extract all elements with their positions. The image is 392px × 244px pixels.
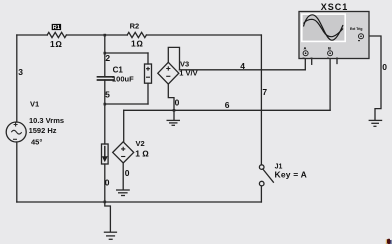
svg-text:XSC1: XSC1 <box>321 2 349 12</box>
svg-text:C1: C1 <box>113 66 124 75</box>
svg-text:Ext Trig: Ext Trig <box>350 27 362 31</box>
svg-text:R2: R2 <box>130 21 140 30</box>
svg-text:Key = A: Key = A <box>275 169 308 179</box>
svg-text:0: 0 <box>105 177 110 187</box>
svg-text:10.3 Vrms: 10.3 Vrms <box>29 116 64 125</box>
svg-text:1 Ω: 1 Ω <box>135 149 149 159</box>
svg-text:V1: V1 <box>30 100 39 109</box>
svg-text:6: 6 <box>225 100 230 110</box>
svg-text:0: 0 <box>125 168 130 178</box>
svg-text:4: 4 <box>240 61 245 71</box>
svg-text:5: 5 <box>105 89 110 99</box>
svg-text:1Ω: 1Ω <box>131 39 143 49</box>
svg-text:1 V/V: 1 V/V <box>179 69 197 78</box>
svg-text:V2: V2 <box>136 139 145 148</box>
svg-text:1592 Hz: 1592 Hz <box>29 126 57 135</box>
svg-text:100uF: 100uF <box>112 75 134 84</box>
svg-text:1Ω: 1Ω <box>50 39 62 49</box>
svg-text:45°: 45° <box>31 138 42 147</box>
svg-text:3: 3 <box>18 67 23 77</box>
svg-text:B: B <box>328 46 331 51</box>
svg-text:0: 0 <box>382 62 387 72</box>
svg-text:A: A <box>304 46 307 51</box>
svg-text:R1: R1 <box>53 25 60 31</box>
svg-text:V3: V3 <box>180 59 189 68</box>
svg-text:2: 2 <box>105 53 110 63</box>
svg-text:0: 0 <box>175 98 180 108</box>
svg-text:7: 7 <box>262 87 267 97</box>
